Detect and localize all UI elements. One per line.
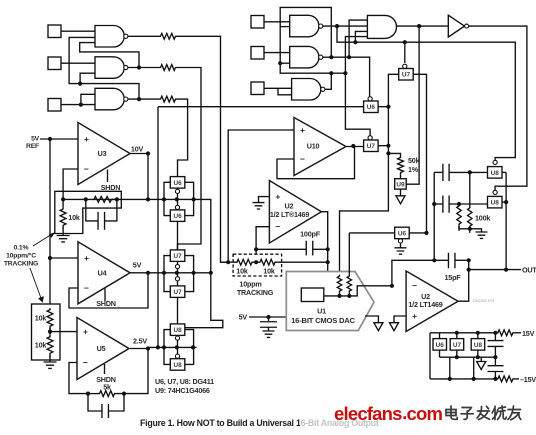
inverter G8	[448, 15, 464, 37]
box U8c	[477, 333, 479, 339]
svg-text:−: −	[300, 154, 305, 164]
resistor R9 10k	[236, 259, 254, 265]
resistor R13 to 15V	[496, 330, 514, 336]
op-amp U3	[78, 123, 130, 185]
svg-text:−: −	[84, 283, 89, 293]
resistor R4 horizontal 10k feedback	[92, 197, 117, 203]
svg-text:U10: U10	[307, 142, 320, 151]
capacitor C8 15pF	[448, 253, 455, 269]
U8 pair loop	[164, 330, 194, 365]
svg-text:U6: U6	[436, 342, 445, 349]
watermark backdrop	[300, 399, 528, 428]
wire 10V rail extension down x=210.8 to U8 right pin	[185, 199, 223, 327]
wire U3 minus to rail	[63, 169, 78, 199]
svg-text:U7: U7	[173, 253, 182, 260]
U10 out node	[346, 146, 363, 148]
box U7c	[456, 333, 458, 339]
nand gate G2	[95, 57, 124, 79]
wire U7a left pin to x=388 bus	[340, 74, 399, 274]
svg-text:U2: U2	[285, 201, 294, 210]
open triangle on mid rail	[480, 357, 482, 361]
svg-text:10k: 10k	[35, 314, 47, 323]
svg-text:+: +	[275, 191, 280, 201]
svg-text:U5: U5	[97, 344, 106, 353]
svg-text:REF: REF	[26, 143, 39, 150]
wire control y=42.2 taps: AND.C	[355, 31, 367, 42]
supply top rail	[430, 332, 496, 334]
wire U6a right to x=388 bus	[378, 106, 388, 108]
wire 5VREF to U3+ and down	[40, 138, 78, 140]
left input square J2	[48, 57, 61, 70]
wire J4 to NAND4.A	[264, 21, 290, 23]
wire U7a right pin down to y=233 line	[413, 74, 426, 233]
switch U7 pair	[170, 250, 185, 262]
ground for 100k pair	[470, 229, 482, 232]
svg-text:16-BIT CMOS DAC: 16-BIT CMOS DAC	[291, 316, 355, 325]
svg-text:U8: U8	[491, 200, 500, 207]
nand gate G5	[290, 46, 319, 68]
svg-text:5V: 5V	[239, 313, 248, 322]
U5 feedback with 5k and cap	[69, 363, 88, 394]
supply caps column	[488, 341, 504, 347]
DAC internal register rect	[301, 288, 324, 302]
wire R2 to vertical bus x=201	[177, 68, 201, 250]
wire U3 out node	[130, 153, 148, 155]
wire U7b control from G6 net	[345, 73, 370, 135]
DAC U1 pentagon	[286, 272, 374, 331]
vertical 5VREF bus x=50	[49, 139, 51, 308]
vertical bus x=158 from y=106.7 to 2.5V rail	[157, 107, 159, 348]
cap C5 lower	[443, 196, 449, 213]
switch chain column x=177.5	[177, 221, 179, 250]
U2b output to OUT	[458, 260, 469, 301]
svg-text:U8: U8	[173, 327, 182, 334]
resistor R8 50k 1%	[398, 156, 404, 174]
ground under R5	[57, 236, 70, 242]
svg-text:U6: U6	[398, 230, 407, 237]
U9 to open triangle	[400, 189, 402, 196]
svg-text:+: +	[300, 125, 305, 135]
capacitor C2 under 5k	[102, 404, 109, 418]
U3 SHDN stub and label	[107, 170, 109, 183]
resistor R3 (G3 output)	[137, 97, 141, 101]
svg-text:TRACKING: TRACKING	[237, 288, 274, 297]
svg-text:+: +	[412, 311, 417, 321]
resistor R11 100k	[457, 204, 461, 231]
svg-text:U6: U6	[173, 180, 182, 187]
resistor R6 10k upper	[47, 308, 53, 330]
resistor R10 10k	[254, 261, 259, 263]
svg-text:U4: U4	[98, 268, 107, 277]
svg-text:10k: 10k	[35, 341, 47, 350]
wire U2a output down to node x=327.7	[295, 212, 328, 296]
U5 SHDN stub	[104, 364, 106, 374]
DAC internal resistor Rb	[348, 233, 350, 275]
switch U6a (series in y=106.7 line)	[158, 106, 364, 108]
watermark chinese characters	[446, 406, 457, 419]
svg-text:−: −	[275, 222, 280, 232]
resistor R12 100k	[469, 172, 471, 206]
op-amp U4	[48, 256, 52, 260]
svg-text:0.1%: 0.1%	[14, 245, 29, 252]
svg-text:TRACKING: TRACKING	[4, 261, 38, 268]
supply bottom rail	[430, 378, 496, 380]
left input square J3	[48, 99, 61, 112]
wire divider tap to U5+	[50, 331, 77, 333]
resistor R14 to -15V	[496, 376, 514, 382]
svg-text:U9: 74HC1G4066: U9: 74HC1G4066	[155, 386, 210, 395]
nand gate G4	[290, 15, 319, 37]
ground at U2a plus input	[259, 197, 270, 203]
U7 pair loop	[164, 256, 194, 292]
svg-text:OUT: OUT	[522, 265, 536, 274]
svg-text:2.5V: 2.5V	[133, 337, 147, 346]
arrow to lower divider box	[30, 268, 42, 300]
svg-text:10V: 10V	[131, 145, 144, 154]
wire 10V node down to feedback rail	[147, 154, 149, 200]
svg-text:−: −	[83, 357, 88, 367]
10ppm tracking ladder dashed box	[233, 254, 282, 276]
op-amp U10	[228, 130, 294, 262]
svg-text:SHDN: SHDN	[96, 299, 116, 308]
wire G2 output feedback to G1 input C	[80, 43, 139, 68]
svg-text:U7: U7	[453, 342, 462, 349]
svg-text:–15V: –15V	[520, 375, 536, 384]
svg-text:DN2331 F01: DN2331 F01	[473, 299, 495, 303]
switch U7b (at U10 output)	[364, 140, 379, 152]
wire U2a minus down to ladder mid	[256, 227, 269, 263]
op-amp U2b LT1469	[406, 271, 458, 332]
wire inverter out to right edge and down to U8d bubble	[469, 26, 527, 190]
switch U6 pair	[170, 177, 185, 189]
resistor R7 10k lower	[49, 328, 51, 335]
and gate G7 (4-input)	[367, 15, 396, 38]
op-amp U2a LT1469	[269, 181, 321, 244]
op-amp U5	[77, 318, 129, 380]
svg-text:10k: 10k	[236, 267, 248, 276]
svg-text:U3: U3	[98, 149, 107, 158]
wire U7b right pin to bus and 50k	[378, 145, 388, 147]
svg-text:10ppm/°C: 10ppm/°C	[6, 252, 36, 260]
resistor R2 (G2 output)	[137, 65, 141, 69]
svg-text:1/2 LT®1469: 1/2 LT®1469	[270, 210, 310, 219]
svg-text:5V: 5V	[31, 136, 40, 143]
resistor R1 (G1 output)	[128, 35, 159, 37]
svg-text:5V: 5V	[133, 261, 142, 270]
wire R1 to vertical bus x=220.5 down to 10k ladder	[177, 36, 228, 262]
svg-text:U6, U7, U8: DG411: U6, U7, U8: DG411	[155, 377, 214, 386]
wire R3 to switch chain top	[177, 99, 188, 177]
svg-text:U1: U1	[317, 307, 326, 316]
U4 feedback loop	[69, 273, 148, 308]
svg-text:10k: 10k	[263, 267, 275, 276]
feedback rail y=199.4	[63, 198, 166, 200]
svg-text:−: −	[84, 164, 89, 174]
svg-text:5k: 5k	[103, 383, 111, 392]
DAC internal resistor Ra	[337, 275, 341, 293]
wire J3 to NAND3 inputs with junction	[61, 104, 95, 106]
svg-text:15V: 15V	[522, 329, 535, 338]
wire AND out to inverter	[397, 25, 449, 27]
wire U5 out 2.5V rail	[130, 348, 148, 350]
svg-text:10k: 10k	[68, 213, 80, 222]
capacitor C1 parallel with R4	[98, 212, 105, 230]
svg-text:U8: U8	[474, 342, 483, 349]
vertical x=506 up to U8 switches	[505, 172, 507, 269]
svg-text:+: +	[84, 134, 89, 144]
arrow to upper resistor box	[33, 234, 53, 246]
svg-text:100pF: 100pF	[300, 230, 321, 239]
cap strap x=434 down to feedback line	[433, 172, 435, 260]
wire G4 out to AND.B and control line y=42.2	[323, 25, 368, 27]
svg-text:−: −	[412, 281, 417, 291]
input square J6	[251, 82, 264, 95]
svg-text:U8: U8	[491, 170, 500, 177]
wire U6a control from G5 net	[331, 57, 369, 96]
svg-text:100k: 100k	[475, 214, 490, 223]
svg-text:U7: U7	[173, 289, 182, 296]
svg-text:U7: U7	[402, 72, 411, 79]
svg-text:1/2 LT1469: 1/2 LT1469	[408, 300, 442, 309]
ladder wire y=262.2	[221, 261, 236, 263]
svg-text:elecfans.com: elecfans.com	[334, 402, 442, 424]
wire J2 to NAND2.A	[61, 62, 95, 64]
U4 SHDN stub	[104, 289, 106, 302]
input square J4	[251, 16, 264, 29]
nand gate G1 (3-input)	[95, 26, 124, 48]
switch U8a	[488, 167, 503, 179]
box U6c	[439, 333, 441, 339]
wire NAND5 net up to AND.A	[349, 20, 367, 57]
wire J5 to NAND5.A	[264, 52, 290, 54]
svg-text:U6: U6	[367, 104, 376, 111]
ground under divider	[44, 362, 57, 368]
wire G5 output feedback loop over the top to G4.B and G5.B	[323, 56, 331, 58]
wire G6 output to y=73 net	[325, 73, 331, 89]
wire y=233 line with switch U6b to ground	[349, 232, 394, 234]
U8b right pin to OUT bus	[502, 201, 506, 203]
svg-text:U7: U7	[367, 143, 376, 150]
svg-text:1%: 1%	[408, 165, 419, 174]
U10 feedback	[277, 146, 355, 179]
U8a right pin to OUT bus	[502, 171, 506, 173]
svg-text:+: +	[83, 326, 88, 336]
resistor R5 vertical 10k to ground	[60, 207, 66, 228]
supply mid rail	[440, 356, 496, 358]
switch U9	[395, 179, 407, 189]
wire G3 output feedback to G1.B and G2.B	[69, 37, 139, 99]
supply left drop	[429, 333, 431, 379]
feedback node vertical to 15pF line	[392, 260, 449, 286]
svg-text:U8: U8	[173, 362, 182, 369]
U6 pair loop	[164, 182, 194, 215]
tracking box around R4 R5	[55, 191, 122, 233]
left input square J1	[48, 25, 61, 38]
switch U8b	[488, 196, 503, 208]
switch U8 pair	[170, 324, 185, 336]
wire J6 to NAND6 inputs	[264, 87, 292, 89]
svg-text:50k: 50k	[408, 156, 420, 165]
divider box (tracking 10k pair)	[32, 304, 61, 360]
verticals to bottom rail	[449, 357, 451, 379]
wire x=419 down from inverter input to U9 right pin	[417, 24, 421, 28]
cap C4 upper	[443, 164, 449, 181]
input square J5	[251, 47, 264, 60]
nand gate G6	[292, 79, 321, 101]
DAC ground pins open triangles	[365, 316, 378, 323]
svg-text:U6: U6	[173, 213, 182, 220]
wire J1 to NAND1.A	[61, 30, 95, 32]
wire G6 net up to AND.D	[345, 37, 367, 74]
nand gate G3	[95, 88, 124, 110]
svg-text:15pF: 15pF	[445, 273, 462, 282]
switch U7a (top right)	[399, 69, 414, 81]
wire U4 out 5V rail	[130, 272, 211, 274]
svg-text:U9: U9	[396, 181, 405, 188]
DAC output wire to U2b minus	[324, 286, 392, 296]
svg-text:+: +	[84, 253, 89, 263]
wire control y=42.2 tap to U7a switch bubble	[404, 42, 406, 63]
